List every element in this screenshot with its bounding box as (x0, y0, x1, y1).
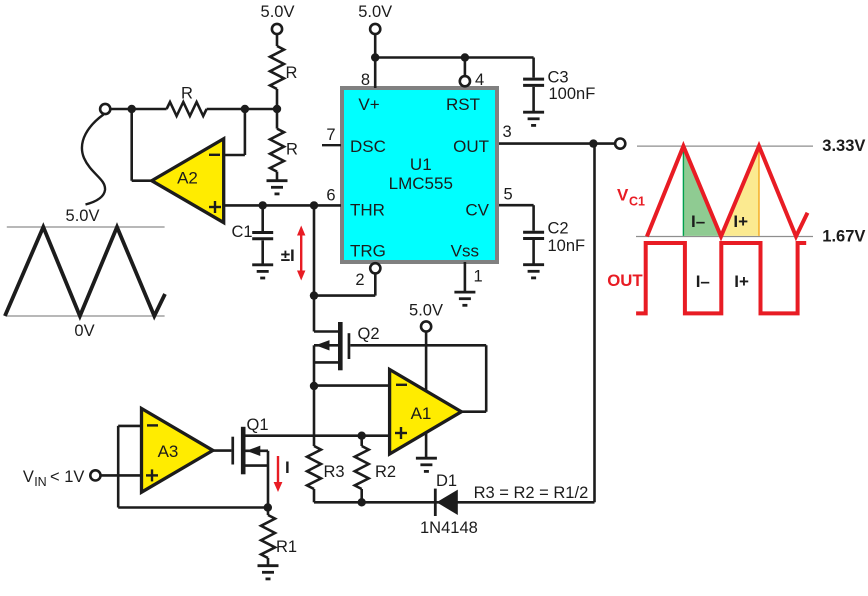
svg-text:OUT: OUT (607, 271, 643, 290)
svg-text:A3: A3 (158, 442, 179, 461)
svg-text:R3 = R2 = R1/2: R3 = R2 = R1/2 (474, 484, 589, 502)
svg-text:C2: C2 (548, 220, 569, 238)
svg-text:C1: C1 (629, 195, 645, 209)
svg-text:1.67V: 1.67V (822, 228, 865, 246)
svg-text:C3: C3 (548, 69, 569, 87)
svg-text:I–: I– (691, 212, 705, 231)
svg-text:V: V (617, 186, 629, 205)
svg-text:V: V (23, 468, 34, 486)
svg-text:6: 6 (326, 186, 335, 204)
svg-text:2: 2 (355, 271, 364, 289)
svg-text:R2: R2 (375, 463, 396, 481)
svg-text:V+: V+ (358, 95, 379, 114)
svg-text:R3: R3 (324, 463, 345, 481)
svg-text:LMC555: LMC555 (389, 174, 453, 193)
svg-text:C1: C1 (232, 223, 253, 241)
svg-text:5: 5 (504, 186, 513, 204)
svg-text:I+: I+ (733, 212, 748, 231)
svg-text:Q2: Q2 (358, 325, 380, 343)
svg-text:CV: CV (465, 201, 489, 220)
svg-text:THR: THR (350, 201, 385, 220)
svg-text:1N4148: 1N4148 (420, 519, 478, 537)
svg-text:D1: D1 (436, 472, 457, 490)
svg-text:OUT: OUT (453, 137, 489, 156)
svg-text:±I: ±I (281, 246, 295, 265)
svg-text:RST: RST (446, 95, 480, 114)
svg-text:A2: A2 (177, 169, 198, 188)
svg-text:R1: R1 (276, 538, 297, 556)
svg-text:100nF: 100nF (549, 85, 596, 103)
svg-text:I: I (285, 458, 290, 477)
svg-text:10nF: 10nF (548, 237, 586, 255)
svg-text:IN: IN (34, 475, 47, 489)
svg-text:4: 4 (475, 71, 484, 89)
svg-text:5.0V: 5.0V (261, 3, 295, 21)
svg-text:I+: I+ (734, 272, 749, 291)
svg-text:Vss: Vss (451, 242, 479, 261)
svg-text:5.0V: 5.0V (409, 302, 443, 320)
svg-text:Q1: Q1 (247, 416, 269, 434)
svg-text:7: 7 (326, 126, 335, 144)
svg-text:R: R (181, 85, 193, 103)
svg-text:TRG: TRG (350, 242, 386, 261)
svg-text:DSC: DSC (350, 137, 386, 156)
svg-text:R: R (286, 141, 298, 159)
svg-text:3.33V: 3.33V (822, 137, 865, 155)
svg-text:5.0V: 5.0V (66, 207, 100, 225)
svg-text:I–: I– (696, 272, 710, 291)
svg-text:1: 1 (474, 268, 483, 286)
svg-text:U1: U1 (410, 155, 432, 174)
svg-text:8: 8 (361, 71, 370, 89)
svg-text:< 1V: < 1V (50, 468, 84, 486)
svg-text:3: 3 (503, 123, 512, 141)
svg-text:A1: A1 (411, 404, 432, 423)
svg-text:R: R (286, 64, 298, 82)
svg-text:5.0V: 5.0V (358, 3, 392, 21)
svg-text:0V: 0V (74, 322, 94, 340)
